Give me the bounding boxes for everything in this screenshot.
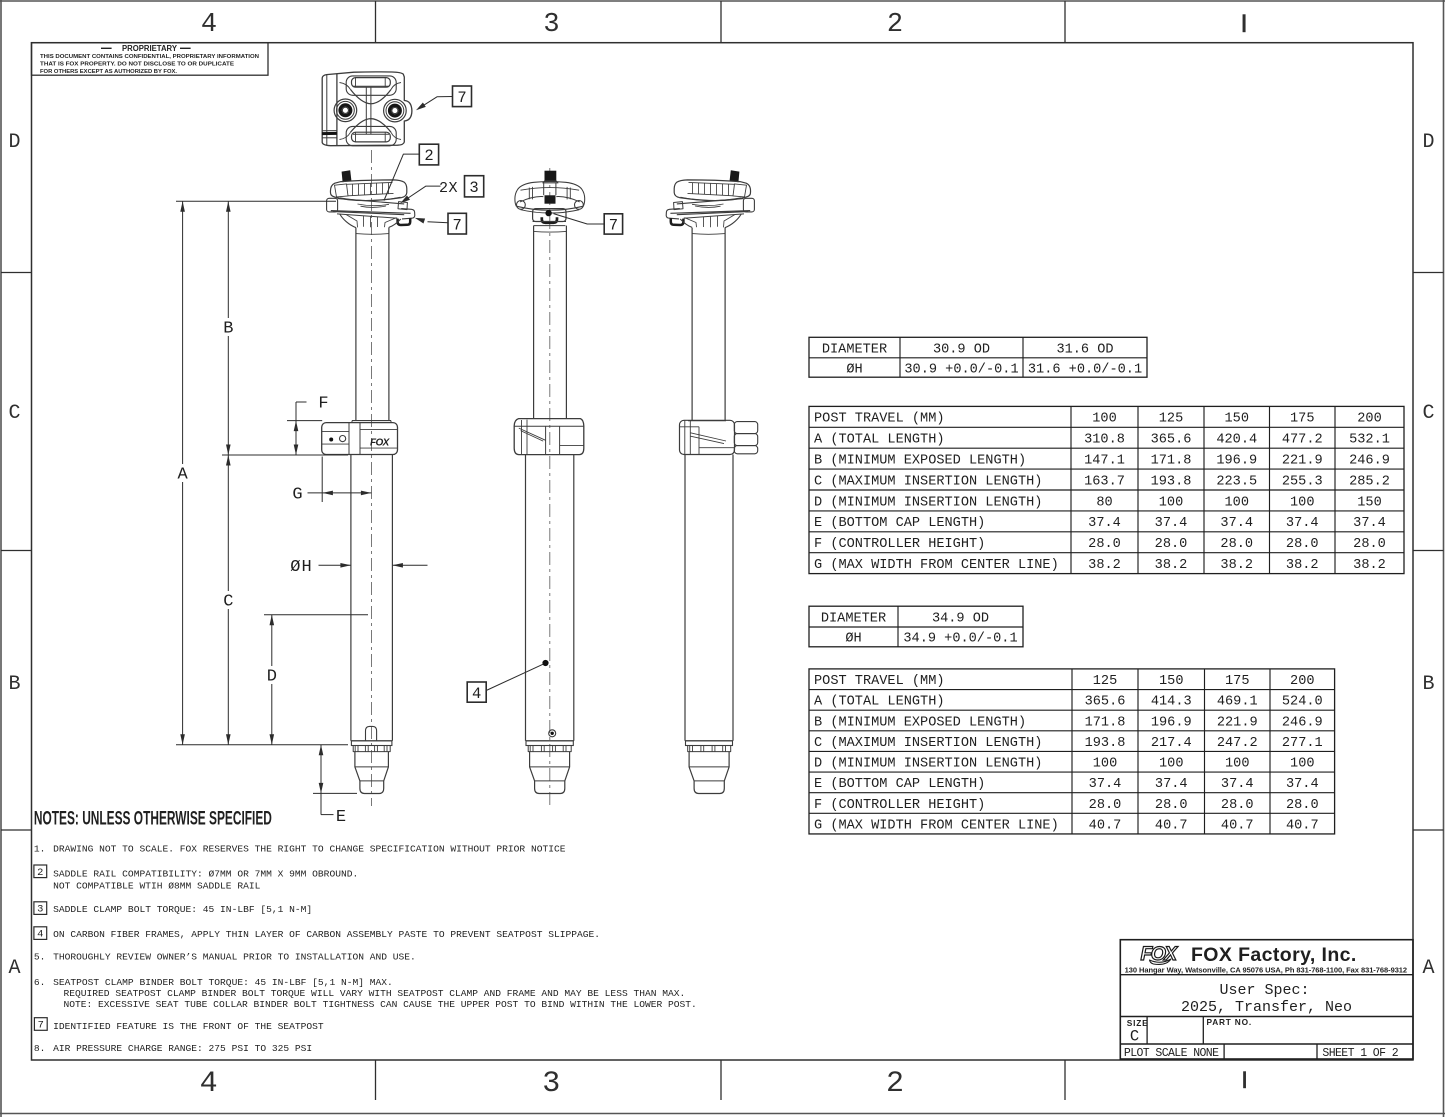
svg-text:PLOT SCALE NONE: PLOT SCALE NONE <box>1124 1047 1219 1060</box>
svg-text:38.2: 38.2 <box>1286 558 1319 573</box>
table: post travel 30.9/31.6 <box>809 406 1404 573</box>
dimension E <box>320 745 322 794</box>
svg-text:1.: 1. <box>34 844 46 855</box>
svg-text:5.: 5. <box>34 951 46 962</box>
saddle clamp bolt (black) middle view <box>545 171 556 181</box>
dimension D <box>271 615 273 666</box>
cable port notch <box>366 726 377 740</box>
leader for callout 7 (top view) <box>419 97 453 109</box>
svg-text:G: G <box>292 485 302 504</box>
svg-text:221.9: 221.9 <box>1282 453 1323 468</box>
svg-text:G (MAX WIDTH FROM CENTER LINE): G (MAX WIDTH FROM CENTER LINE) <box>814 558 1059 573</box>
svg-text:37.4: 37.4 <box>1286 777 1319 792</box>
svg-text:28.0: 28.0 <box>1155 537 1188 552</box>
svg-text:200: 200 <box>1357 412 1381 427</box>
svg-text:414.3: 414.3 <box>1151 695 1192 710</box>
view: saddle clamp head, top view <box>322 72 412 146</box>
svg-text:SADDLE RAIL COMPATIBILITY: Ø7M: SADDLE RAIL COMPATIBILITY: Ø7MM OR 7MM X… <box>53 868 358 879</box>
svg-text:NOT COMPATIBLE WTIH Ø8MM SADDL: NOT COMPATIBLE WTIH Ø8MM SADDLE RAIL <box>53 881 261 892</box>
head flare with front tab <box>331 211 411 214</box>
svg-text:150: 150 <box>1357 495 1381 510</box>
saddle clamp side view <box>534 182 585 207</box>
zone ticks bottom <box>375 1060 377 1100</box>
svg-text:38.2: 38.2 <box>1088 558 1121 573</box>
svg-text:37.4: 37.4 <box>1089 777 1122 792</box>
svg-text:4: 4 <box>200 1067 218 1101</box>
svg-text:4: 4 <box>37 929 43 941</box>
svg-text:175: 175 <box>1225 674 1249 689</box>
centerline middle view <box>549 168 551 806</box>
svg-text:A: A <box>1422 957 1434 980</box>
zone ticks top <box>375 1 377 43</box>
upper saddle clamp <box>330 180 406 201</box>
svg-text:193.8: 193.8 <box>1085 736 1126 751</box>
svg-text:B (MINIMUM EXPOSED LENGTH): B (MINIMUM EXPOSED LENGTH) <box>814 453 1026 468</box>
note 4 (boxed) <box>34 927 47 940</box>
svg-text:100: 100 <box>1225 757 1249 772</box>
upper tube right view <box>691 228 693 420</box>
svg-text:FOX: FOX <box>370 438 391 449</box>
svg-text:100: 100 <box>1092 412 1116 427</box>
dimension A <box>182 201 184 464</box>
svg-text:D: D <box>267 668 277 687</box>
note 3 (boxed) <box>34 902 47 915</box>
collar middle view <box>514 419 584 455</box>
cap bolt detail <box>549 730 556 737</box>
svg-text:200: 200 <box>1290 674 1314 689</box>
svg-text:7: 7 <box>457 89 466 107</box>
bottom cap left view <box>351 740 393 742</box>
note 7 (boxed) <box>34 1018 47 1031</box>
svg-text:DIAMETER: DIAMETER <box>821 611 886 626</box>
lower tube right view <box>684 455 686 741</box>
svg-text:171.8: 171.8 <box>1151 453 1192 468</box>
svg-text:37.4: 37.4 <box>1221 777 1254 792</box>
bottom cap right view <box>685 740 733 742</box>
leader for callout 7 (middle view) <box>554 214 605 224</box>
note 2 (boxed) <box>34 865 47 878</box>
svg-text:37.4: 37.4 <box>1088 516 1121 531</box>
svg-text:30.9 +0.0/-0.1: 30.9 +0.0/-0.1 <box>904 362 1018 377</box>
svg-text:255.3: 255.3 <box>1282 474 1323 489</box>
svg-text:NOTE: EXCESSIVE SEAT TUBE COLL: NOTE: EXCESSIVE SEAT TUBE COLLAR BINDER … <box>64 999 697 1010</box>
svg-text:POST TRAVEL (MM): POST TRAVEL (MM) <box>814 412 945 427</box>
dimension B <box>227 201 229 318</box>
svg-text:246.9: 246.9 <box>1282 715 1323 730</box>
svg-text:A: A <box>177 466 188 485</box>
svg-text:3: 3 <box>542 1067 560 1101</box>
svg-text:100: 100 <box>1159 757 1183 772</box>
svg-text:3: 3 <box>469 179 478 197</box>
svg-text:E: E <box>336 808 346 827</box>
svg-text:40.7: 40.7 <box>1089 818 1122 833</box>
svg-text:28.0: 28.0 <box>1286 798 1319 813</box>
svg-text:28.0: 28.0 <box>1353 537 1386 552</box>
callout box 7 (top view) <box>453 86 472 107</box>
svg-text:A (TOTAL LENGTH): A (TOTAL LENGTH) <box>814 433 945 448</box>
svg-text:7: 7 <box>453 216 462 234</box>
svg-text:2025, Transfer, Neo: 2025, Transfer, Neo <box>1181 999 1352 1016</box>
svg-text:2: 2 <box>887 10 903 40</box>
FOX logo <box>1141 943 1179 965</box>
zone ticks right <box>1413 272 1444 274</box>
leader for callout 7 (left view) <box>428 222 449 223</box>
svg-text:SADDLE CLAMP BOLT TORQUE: 45 I: SADDLE CLAMP BOLT TORQUE: 45 IN-LBF [5,1… <box>53 904 312 915</box>
svg-text:38.2: 38.2 <box>1155 558 1188 573</box>
upper tube middle view <box>533 226 535 419</box>
zone ticks left <box>1 272 32 274</box>
svg-text:B: B <box>8 673 20 696</box>
svg-text:3: 3 <box>37 904 43 916</box>
svg-text:C: C <box>223 593 233 612</box>
svg-text:C: C <box>8 402 20 425</box>
callout box 7 (left view) <box>448 213 466 234</box>
svg-text:FOX: FOX <box>1141 943 1179 965</box>
svg-text:196.9: 196.9 <box>1216 453 1257 468</box>
svg-text:FOX Factory, Inc.: FOX Factory, Inc. <box>1191 944 1357 966</box>
lower tube middle view <box>525 455 527 741</box>
view: seatpost back (right) <box>666 170 758 793</box>
svg-text:7: 7 <box>609 217 618 235</box>
svg-text:4: 4 <box>201 10 217 40</box>
svg-text:524.0: 524.0 <box>1282 695 1323 710</box>
svg-text:37.4: 37.4 <box>1220 516 1253 531</box>
svg-text:PART NO.: PART NO. <box>1207 1017 1252 1027</box>
svg-text:100: 100 <box>1159 495 1183 510</box>
svg-text:310.8: 310.8 <box>1084 433 1125 448</box>
svg-text:246.9: 246.9 <box>1349 453 1390 468</box>
svg-text:User Spec:: User Spec: <box>1219 982 1309 999</box>
svg-text:469.1: 469.1 <box>1217 695 1258 710</box>
svg-text:E (BOTTOM CAP LENGTH): E (BOTTOM CAP LENGTH) <box>814 777 985 792</box>
table: post travel 34.9 <box>809 669 1335 834</box>
svg-text:28.0: 28.0 <box>1220 537 1253 552</box>
proprietary notice box <box>32 43 269 75</box>
svg-text:B: B <box>1422 673 1434 696</box>
svg-text:31.6 +0.0/-0.1: 31.6 +0.0/-0.1 <box>1028 362 1142 377</box>
view: seatpost front (left) <box>322 150 415 806</box>
svg-text:2: 2 <box>424 147 433 165</box>
svg-text:NOTES: UNLESS OTHERWISE SPECIF: NOTES: UNLESS OTHERWISE SPECIFIED <box>34 809 272 830</box>
svg-text:F: F <box>318 395 328 414</box>
lower clamp plate <box>327 198 338 212</box>
svg-text:37.4: 37.4 <box>1286 516 1319 531</box>
svg-text:C (MAXIMUM INSERTION LENGTH): C (MAXIMUM INSERTION LENGTH) <box>814 736 1042 751</box>
svg-text:D: D <box>8 131 20 154</box>
svg-text:G (MAX WIDTH FROM CENTER LINE): G (MAX WIDTH FROM CENTER LINE) <box>814 818 1059 833</box>
svg-text:THOROUGHLY REVIEW OWNER’S MANU: THOROUGHLY REVIEW OWNER’S MANUAL PRIOR T… <box>53 951 416 962</box>
collar with controller, left view <box>352 420 391 422</box>
svg-text:4: 4 <box>472 685 481 703</box>
svg-text:125: 125 <box>1093 674 1117 689</box>
svg-text:37.4: 37.4 <box>1155 516 1188 531</box>
dimension extension lines <box>176 200 336 202</box>
svg-text:37.4: 37.4 <box>1155 777 1188 792</box>
svg-text:ON CARBON FIBER FRAMES, APPLY: ON CARBON FIBER FRAMES, APPLY THIN LAYER… <box>53 929 600 940</box>
svg-text:6.: 6. <box>34 977 46 988</box>
svg-text:C: C <box>1130 1027 1139 1045</box>
black band on left plate <box>322 132 337 135</box>
svg-text:100: 100 <box>1290 757 1314 772</box>
svg-text:277.1: 277.1 <box>1282 736 1323 751</box>
leader for callout 3 <box>403 186 441 201</box>
svg-text:285.2: 285.2 <box>1349 474 1390 489</box>
svg-text:37.4: 37.4 <box>1353 516 1386 531</box>
svg-text:150: 150 <box>1225 412 1249 427</box>
svg-text:40.7: 40.7 <box>1155 818 1188 833</box>
svg-text:30.9 OD: 30.9 OD <box>933 342 990 357</box>
callout box 2 <box>419 144 438 165</box>
centerline left view <box>371 150 373 806</box>
svg-text:80: 80 <box>1096 495 1112 510</box>
svg-text:175: 175 <box>1290 412 1314 427</box>
svg-text:193.8: 193.8 <box>1151 474 1192 489</box>
svg-text:THAT IS FOX PROPERTY. DO NOT: THAT IS FOX PROPERTY. DO NOT DISCLOSE TO… <box>40 62 234 68</box>
svg-text:C (MAXIMUM INSERTION LENGTH): C (MAXIMUM INSERTION LENGTH) <box>814 474 1042 489</box>
svg-text:31.6 OD: 31.6 OD <box>1056 342 1113 357</box>
svg-text:3: 3 <box>543 10 559 40</box>
front keyhole (dark) <box>398 218 411 225</box>
collar right view <box>688 420 726 422</box>
svg-text:247.2: 247.2 <box>1217 736 1258 751</box>
svg-text:B (MINIMUM EXPOSED LENGTH): B (MINIMUM EXPOSED LENGTH) <box>814 715 1026 730</box>
svg-text:FOR OTHERS EXCEPT AS AUTHORIZE: FOR OTHERS EXCEPT AS AUTHORIZED BY FOX. <box>40 69 177 75</box>
svg-text:34.9 OD: 34.9 OD <box>932 611 989 626</box>
bolt right (top view) <box>384 99 407 122</box>
svg-text:125: 125 <box>1159 412 1183 427</box>
svg-text:B: B <box>223 320 233 339</box>
svg-text:223.5: 223.5 <box>1216 474 1257 489</box>
svg-text:2: 2 <box>37 867 43 879</box>
svg-text:2: 2 <box>886 1067 904 1101</box>
title block <box>1120 940 1413 1059</box>
head block middle view <box>533 209 566 222</box>
svg-text:130 Hangar Way, Watsonville, C: 130 Hangar Way, Watsonville, CA 95076 US… <box>1125 965 1407 974</box>
svg-text:38.2: 38.2 <box>1353 558 1386 573</box>
svg-text:AIR PRESSURE CHARGE RANGE: 275: AIR PRESSURE CHARGE RANGE: 275 PSI TO 32… <box>53 1043 312 1054</box>
svg-text:100: 100 <box>1225 495 1249 510</box>
svg-text:365.6: 365.6 <box>1085 695 1126 710</box>
svg-text:28.0: 28.0 <box>1088 537 1121 552</box>
svg-text:100: 100 <box>1093 757 1117 772</box>
svg-text:POST TRAVEL (MM): POST TRAVEL (MM) <box>814 674 945 689</box>
callout box 4 <box>467 682 486 702</box>
bottom cap middle view <box>526 740 574 742</box>
view: seatpost side (middle) <box>514 168 585 806</box>
svg-text:F (CONTROLLER HEIGHT): F (CONTROLLER HEIGHT) <box>814 537 985 552</box>
table: diameter 34.9 <box>809 606 1023 647</box>
svg-text:THIS DOCUMENT CONTAINS CONFIDE: THIS DOCUMENT CONTAINS CONFIDENTIAL, PRO… <box>40 54 259 60</box>
svg-text:D: D <box>1422 131 1434 154</box>
svg-text:PROPRIETARY: PROPRIETARY <box>122 44 178 53</box>
svg-text:40.7: 40.7 <box>1286 818 1319 833</box>
svg-text:163.7: 163.7 <box>1084 474 1125 489</box>
svg-text:ØH: ØH <box>845 632 861 647</box>
svg-text:38.2: 38.2 <box>1220 558 1253 573</box>
svg-text:100: 100 <box>1290 495 1314 510</box>
svg-text:147.1: 147.1 <box>1084 453 1125 468</box>
svg-text:A: A <box>8 957 20 980</box>
dimension C <box>227 455 229 591</box>
svg-text:532.1: 532.1 <box>1349 433 1390 448</box>
svg-text:ØH: ØH <box>846 362 862 377</box>
svg-text:171.8: 171.8 <box>1085 715 1126 730</box>
svg-text:DIAMETER: DIAMETER <box>822 342 887 357</box>
bolt left (top view) <box>334 99 357 122</box>
table: diameter 30.9/31.6 <box>809 337 1147 377</box>
svg-text:34.9 +0.0/-0.1: 34.9 +0.0/-0.1 <box>903 632 1017 647</box>
svg-text:28.0: 28.0 <box>1221 798 1254 813</box>
svg-text:28.0: 28.0 <box>1286 537 1319 552</box>
svg-text:REQUIRED SEATPOST CLAMP BINDER: REQUIRED SEATPOST CLAMP BINDER BOLT TORQ… <box>64 988 686 999</box>
svg-text:F (CONTROLLER HEIGHT): F (CONTROLLER HEIGHT) <box>814 798 985 813</box>
svg-text:D (MINIMUM INSERTION LENGTH): D (MINIMUM INSERTION LENGTH) <box>814 495 1042 510</box>
svg-text:A (TOTAL LENGTH): A (TOTAL LENGTH) <box>814 695 945 710</box>
svg-text:8.: 8. <box>34 1043 46 1054</box>
svg-text:477.2: 477.2 <box>1282 433 1323 448</box>
saddle clamp bolt (black) left view <box>342 170 352 182</box>
leader for callout 2 <box>384 154 419 200</box>
svg-text:420.4: 420.4 <box>1216 433 1257 448</box>
svg-text:DRAWING NOT TO SCALE. FOX RESE: DRAWING NOT TO SCALE. FOX RESERVES THE R… <box>53 844 566 855</box>
svg-text:D (MINIMUM INSERTION LENGTH): D (MINIMUM INSERTION LENGTH) <box>814 757 1042 772</box>
sheet outer border <box>0 0 1445 2</box>
svg-text:28.0: 28.0 <box>1155 798 1188 813</box>
upper tube left view <box>355 228 357 421</box>
svg-text:IDENTIFIED FEATURE IS THE FRON: IDENTIFIED FEATURE IS THE FRONT OF THE S… <box>53 1021 324 1032</box>
svg-text:2X: 2X <box>439 180 458 197</box>
leader for callout 4 <box>486 663 545 690</box>
svg-text:SEATPOST CLAMP BINDER BOLT TOR: SEATPOST CLAMP BINDER BOLT TORQUE: 45 IN… <box>53 977 393 988</box>
svg-text:ØH: ØH <box>290 558 312 577</box>
svg-text:196.9: 196.9 <box>1151 715 1192 730</box>
dimension F <box>296 401 307 403</box>
svg-text:7: 7 <box>38 1020 44 1032</box>
svg-text:221.9: 221.9 <box>1217 715 1258 730</box>
lower tube left view <box>350 455 352 741</box>
svg-text:C: C <box>1422 402 1434 425</box>
svg-text:28.0: 28.0 <box>1089 798 1122 813</box>
callout box 7 (middle view) <box>604 214 622 234</box>
svg-text:40.7: 40.7 <box>1221 818 1254 833</box>
svg-text:E (BOTTOM CAP LENGTH): E (BOTTOM CAP LENGTH) <box>814 516 985 531</box>
svg-text:217.4: 217.4 <box>1151 736 1192 751</box>
svg-text:365.6: 365.6 <box>1151 433 1192 448</box>
svg-text:150: 150 <box>1159 674 1183 689</box>
svg-text:SHEET 1 OF 2: SHEET 1 OF 2 <box>1322 1047 1398 1060</box>
head assembly right view (mirrored) <box>666 170 754 227</box>
